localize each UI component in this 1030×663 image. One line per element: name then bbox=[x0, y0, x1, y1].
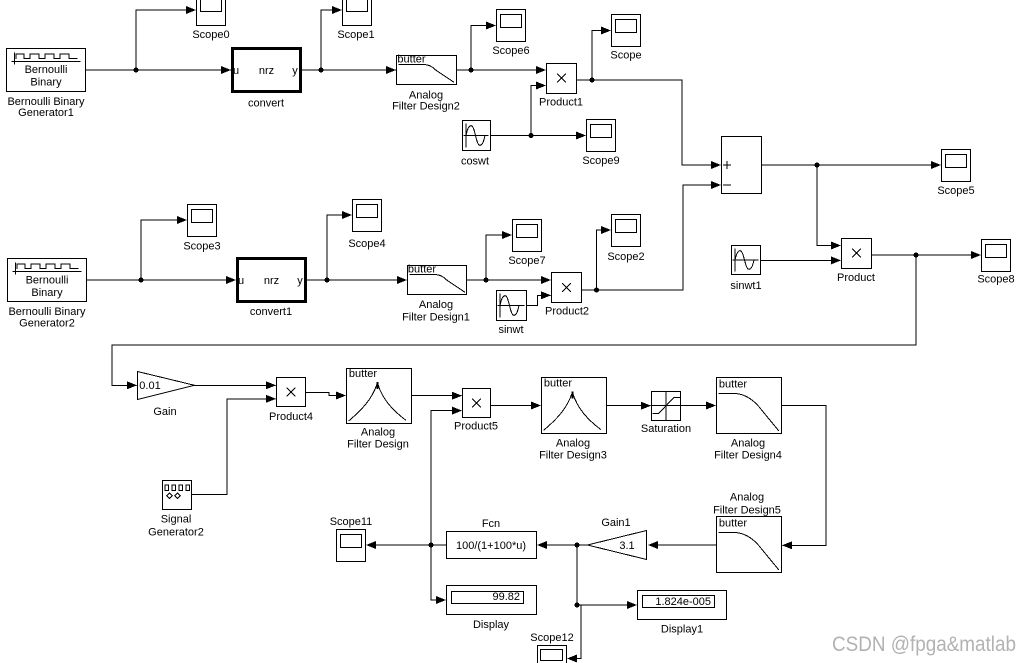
arrow into Gain1 bbox=[648, 541, 658, 549]
svg-text:Binary: Binary bbox=[31, 287, 63, 299]
block Scope6 bbox=[497, 10, 526, 42]
svg-text:butter: butter bbox=[349, 368, 377, 380]
arrow into Product1 in1 bbox=[536, 66, 546, 74]
block Sum bbox=[722, 137, 762, 194]
svg-text:CSDN @fpga&matlab: CSDN @fpga&matlab bbox=[832, 632, 1016, 656]
wire Gain1 out down to Display1 bbox=[577, 545, 636, 605]
arrow into convert bbox=[221, 66, 231, 74]
block Product2 bbox=[552, 273, 582, 303]
svg-text:Scope6: Scope6 bbox=[492, 45, 529, 57]
block sinwt1 bbox=[732, 246, 761, 275]
block Scope4 bbox=[353, 200, 382, 232]
svg-text:Scope11: Scope11 bbox=[330, 516, 373, 528]
block Scope3 bbox=[188, 205, 217, 237]
block Scope11 bbox=[337, 530, 366, 562]
svg-text:Product5: Product5 bbox=[454, 421, 498, 433]
block Bernoulli Binary Generator2 bbox=[8, 259, 87, 302]
svg-text:Gain: Gain bbox=[153, 406, 176, 418]
junction Product2 out bbox=[594, 288, 599, 293]
block Analog Filter Design1 bbox=[408, 266, 467, 295]
arrow into AFD2 bbox=[386, 66, 396, 74]
arrow into Display1 bbox=[627, 601, 637, 609]
wire Sum to Scope5 bbox=[762, 164, 940, 166]
block Analog Filter Design2 bbox=[397, 56, 457, 85]
arrow into AFD1 bbox=[397, 276, 407, 284]
wire Gain1 to Fcn bbox=[538, 544, 587, 546]
block Scope8 bbox=[982, 240, 1011, 272]
arrow into Sum minus bbox=[711, 181, 721, 189]
svg-text:Bernoulli: Bernoulli bbox=[25, 64, 68, 76]
junction Sum out bbox=[815, 163, 820, 168]
svg-text:0.01: 0.01 bbox=[139, 380, 160, 392]
wire convert to AFD2 bbox=[302, 69, 396, 71]
svg-text:Scope1: Scope1 bbox=[337, 29, 374, 41]
wire convert1 to AFD1 bbox=[307, 279, 406, 281]
svg-text:Scope7: Scope7 bbox=[508, 255, 545, 267]
svg-text:99.82: 99.82 bbox=[492, 591, 520, 603]
wire branch to Scope6 bbox=[471, 26, 495, 71]
wire branch to Scope7 bbox=[486, 235, 511, 280]
wire Product to Scope8 bbox=[871, 254, 980, 256]
arrow into Scope11 bbox=[366, 541, 376, 549]
arrow into Product4 in1 bbox=[266, 381, 276, 389]
svg-text:Analog: Analog bbox=[730, 492, 764, 504]
svg-text:100/(1+100*u): 100/(1+100*u) bbox=[456, 540, 526, 552]
svg-text:sinwt1: sinwt1 bbox=[730, 280, 761, 292]
wire branch coswt to Product1 bbox=[531, 86, 545, 136]
svg-text:Gain1: Gain1 bbox=[601, 517, 630, 529]
svg-text:Product2: Product2 bbox=[545, 306, 589, 318]
wire Product2 to Sum minus bbox=[582, 185, 721, 290]
block Scope5 bbox=[942, 150, 971, 182]
svg-text:Signal: Signal bbox=[161, 514, 192, 526]
junction coswt out bbox=[529, 133, 534, 138]
svg-text:Scope12: Scope12 bbox=[530, 632, 573, 644]
block Gain1 bbox=[588, 531, 647, 560]
block coswt bbox=[463, 121, 491, 151]
svg-text:convert1: convert1 bbox=[250, 306, 292, 318]
svg-text:Analog: Analog bbox=[556, 438, 590, 450]
junction Display1 branch bbox=[575, 603, 580, 608]
block Scope1 bbox=[343, 0, 372, 26]
wire AFD to Product5 bbox=[412, 395, 461, 397]
svg-text:Scope4: Scope4 bbox=[348, 238, 385, 250]
svg-text:convert: convert bbox=[248, 98, 284, 110]
svg-text:3.1: 3.1 bbox=[619, 540, 634, 552]
block Scope0 bbox=[197, 0, 226, 26]
junction AFD2 out bbox=[469, 68, 474, 73]
wire feedback Product out to Gain bbox=[112, 255, 916, 385]
arrow into Product in1 bbox=[831, 242, 841, 250]
svg-text:Product4: Product4 bbox=[269, 411, 313, 423]
block Analog Filter Design bbox=[347, 369, 412, 424]
wire Gain to Product4 bbox=[195, 384, 275, 386]
arrow into Product5 in1 bbox=[452, 392, 462, 400]
svg-text:Scope0: Scope0 bbox=[192, 29, 229, 41]
arrow into Product1 in2 bbox=[536, 82, 546, 90]
svg-text:1.824e-005: 1.824e-005 bbox=[655, 596, 711, 608]
svg-text:Scope9: Scope9 bbox=[582, 155, 619, 167]
wire Product1 to Sum plus bbox=[577, 80, 720, 165]
junction Fcn out bbox=[429, 543, 434, 548]
arrow into Scope bbox=[601, 27, 611, 35]
wire branch Fcn out up to Product5 bbox=[431, 411, 461, 545]
svg-text:y: y bbox=[292, 65, 298, 77]
svg-text:Generator1: Generator1 bbox=[18, 107, 74, 119]
arrow into Gain bbox=[127, 381, 137, 389]
svg-text:Display1: Display1 bbox=[661, 624, 703, 636]
svg-text:u: u bbox=[238, 275, 244, 287]
wire down to Scope12 bbox=[568, 605, 581, 659]
wire Bernoulli1 to convert bbox=[86, 69, 231, 71]
svg-text:Saturation: Saturation bbox=[641, 423, 691, 435]
wire branch to Scope4 bbox=[327, 215, 351, 280]
wire sinwt1 to Product bbox=[761, 259, 840, 261]
svg-text:Filter Design2: Filter Design2 bbox=[392, 101, 460, 113]
arrow into Saturation bbox=[641, 402, 651, 410]
block Product5 bbox=[463, 389, 491, 418]
block Scope bbox=[612, 15, 641, 47]
block Scope12 bbox=[538, 646, 567, 663]
svg-text:Bernoulli: Bernoulli bbox=[26, 275, 69, 287]
block Signal Generator2 bbox=[163, 481, 192, 510]
block Scope9 bbox=[587, 120, 616, 152]
junction Product out bbox=[914, 253, 919, 258]
svg-text:Filter Design: Filter Design bbox=[347, 439, 409, 451]
junction Gain1 out bbox=[575, 543, 580, 548]
svg-text:butter: butter bbox=[397, 54, 425, 66]
svg-text:butter: butter bbox=[719, 379, 747, 391]
arrow into AFD3 bbox=[531, 402, 541, 410]
wire branch to Scope0 bbox=[136, 10, 195, 70]
wire AFD5 to Gain1 bbox=[649, 544, 716, 546]
svg-text:Analog: Analog bbox=[731, 438, 765, 450]
svg-text:Product: Product bbox=[837, 272, 875, 284]
wire AFD1 to Product2 bbox=[467, 279, 550, 281]
arrow into Product2 in2 bbox=[541, 291, 551, 299]
block convert1 bbox=[238, 259, 306, 302]
svg-text:y: y bbox=[297, 275, 303, 287]
arrow into Product4 in2 bbox=[266, 395, 276, 403]
svg-text:Fcn: Fcn bbox=[482, 518, 500, 530]
arrow into Display bbox=[436, 596, 446, 604]
wire branch to Scope3 bbox=[141, 220, 186, 280]
wire coswt to Scope9 bbox=[491, 135, 585, 137]
arrow into AFD bbox=[336, 392, 346, 400]
svg-text:sinwt: sinwt bbox=[498, 324, 523, 336]
svg-text:Filter Design4: Filter Design4 bbox=[714, 450, 782, 462]
wire branch Sum out to Product bbox=[817, 165, 840, 246]
wire branch to Scope1 bbox=[321, 10, 341, 70]
block Product1 bbox=[547, 64, 577, 94]
arrow into Scope12 bbox=[567, 655, 577, 663]
wire Product5 to AFD3 bbox=[491, 405, 540, 407]
svg-text:Display: Display bbox=[473, 619, 510, 631]
junction B2 out bbox=[139, 278, 144, 283]
arrow into Scope1 bbox=[332, 6, 342, 14]
arrow into Scope7 bbox=[502, 231, 512, 239]
block convert bbox=[233, 49, 301, 92]
block Scope2 bbox=[612, 215, 641, 247]
svg-text:Scope2: Scope2 bbox=[607, 251, 644, 263]
arrow into convert1 bbox=[226, 276, 236, 284]
block sinwt bbox=[497, 291, 527, 321]
svg-text:butter: butter bbox=[719, 518, 747, 530]
svg-text:Scope5: Scope5 bbox=[937, 185, 974, 197]
svg-text:Product1: Product1 bbox=[539, 97, 583, 109]
svg-text:Analog: Analog bbox=[361, 427, 395, 439]
svg-text:Generator2: Generator2 bbox=[19, 318, 75, 330]
arrow into Scope9 bbox=[576, 132, 586, 140]
arrow into Scope2 bbox=[601, 226, 611, 234]
wire branch Fcn out down bbox=[431, 545, 445, 600]
arrow into Scope0 bbox=[186, 6, 196, 14]
arrow into AFD4 bbox=[706, 402, 716, 410]
block Saturation bbox=[652, 392, 681, 421]
svg-text:Scope3: Scope3 bbox=[183, 241, 220, 253]
wire AFD3 to Saturation bbox=[607, 405, 650, 407]
svg-text:butter: butter bbox=[544, 378, 572, 390]
block Fcn bbox=[447, 532, 537, 559]
arrow into Sum plus bbox=[711, 161, 721, 169]
arrow into Scope3 bbox=[177, 216, 187, 224]
svg-text:Analog: Analog bbox=[419, 299, 453, 311]
svg-text:Filter Design5: Filter Design5 bbox=[713, 505, 781, 517]
svg-text:u: u bbox=[233, 65, 239, 77]
junction AFD1 out bbox=[484, 278, 489, 283]
block Analog Filter Design3 bbox=[542, 378, 607, 434]
svg-text:Scope: Scope bbox=[610, 50, 641, 62]
arrow into Fcn bbox=[537, 541, 547, 549]
junction Product1 out bbox=[590, 78, 595, 83]
arrow into Scope5 bbox=[931, 161, 941, 169]
arrow into Scope6 bbox=[486, 22, 496, 30]
arrow into Product in2 bbox=[831, 256, 841, 264]
arrow into Product2 in1 bbox=[541, 276, 551, 284]
wire sinwt to Product2 bbox=[527, 295, 550, 305]
wire Fcn out to Scope11 bbox=[367, 544, 446, 546]
wire SignalGenerator2 to Product4 bbox=[192, 399, 275, 495]
block Scope7 bbox=[513, 220, 542, 252]
block Gain bbox=[138, 372, 195, 400]
block Product4 bbox=[277, 378, 306, 407]
svg-text:coswt: coswt bbox=[461, 156, 489, 168]
arrow into Product5 in2 bbox=[452, 407, 462, 415]
svg-text:nrz: nrz bbox=[259, 65, 274, 77]
wire AFD4 to AFD5 bbox=[782, 406, 826, 546]
svg-text:Filter Design1: Filter Design1 bbox=[402, 312, 470, 324]
junction B1 out bbox=[134, 68, 139, 73]
arrow into Scope4 bbox=[342, 211, 352, 219]
block Display1 bbox=[638, 591, 727, 620]
junction convert out bbox=[319, 68, 324, 73]
svg-text:butter: butter bbox=[408, 264, 436, 276]
block Display bbox=[447, 586, 537, 615]
svg-text:Filter Design3: Filter Design3 bbox=[539, 450, 607, 462]
wire Saturation to AFD4 bbox=[681, 405, 715, 407]
svg-text:Generator2: Generator2 bbox=[148, 527, 204, 539]
arrow into AFD5 right input bbox=[782, 541, 792, 549]
wire AFD2 to Product1 bbox=[457, 69, 545, 71]
wire Product4 to AFD bbox=[306, 393, 345, 396]
wire branch to Scope2 bbox=[597, 230, 611, 290]
svg-text:nrz: nrz bbox=[264, 275, 279, 287]
junction convert1 out bbox=[325, 278, 330, 283]
block Analog Filter Design4 bbox=[717, 378, 782, 434]
block Analog Filter Design5 bbox=[717, 517, 782, 573]
arrow into Scope8 bbox=[971, 251, 981, 259]
wire Bernoulli2 to convert1 bbox=[87, 279, 235, 281]
wire branch to Scope bbox=[592, 31, 610, 81]
svg-text:Bernoulli Binary: Bernoulli Binary bbox=[8, 306, 86, 318]
svg-text:Scope8: Scope8 bbox=[977, 274, 1014, 286]
svg-text:Binary: Binary bbox=[30, 77, 62, 89]
block Product bbox=[842, 239, 872, 269]
block Bernoulli Binary Generator1 bbox=[7, 49, 86, 92]
